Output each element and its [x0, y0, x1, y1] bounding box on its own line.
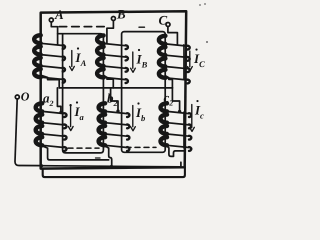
svg-text:a2: a2: [43, 90, 54, 108]
svg-text:IC: IC: [193, 51, 205, 69]
current arrow I_C: [188, 51, 193, 71]
right vertical of winding C: [183, 45, 185, 80]
wire entry winding c: [172, 88, 179, 112]
wire winding B bottom exit: [104, 75, 114, 88]
core window 1 (left): [58, 34, 104, 153]
current arrow I_B: [131, 52, 136, 72]
node winding a entry: [59, 111, 62, 114]
lower bus O-neutral: [41, 162, 181, 167]
svg-text:Ib: Ib: [135, 105, 145, 123]
dashed link A-B: [59, 26, 104, 28]
dash remnant below window 1: [96, 157, 101, 159]
right vertical of winding c: [183, 112, 185, 148]
node winding c entry: [178, 110, 181, 113]
terminal C: [166, 23, 170, 27]
wire C terminal to winding: [168, 27, 178, 45]
wire winding A bottom exit: [41, 75, 60, 88]
outer core/tank rectangle: [41, 11, 187, 168]
wire A terminal to winding: [51, 22, 57, 44]
svg-text:IA: IA: [75, 50, 87, 68]
current arrow I_b: [131, 106, 136, 131]
winding C (upper right leg): [159, 36, 190, 84]
dashed yoke line inside window 1 bottom: [68, 147, 99, 149]
svg-text:IB: IB: [136, 52, 148, 70]
wire B terminal to winding: [107, 21, 114, 44]
wire winding C bottom exit: [165, 76, 172, 88]
svg-text:B: B: [116, 7, 126, 22]
scan specks: [199, 3, 208, 43]
winding B (upper middle leg): [97, 35, 128, 83]
wire O down and right to bottom bus: [15, 99, 41, 166]
wire winding b bottom exit: [105, 146, 112, 167]
terminal B: [111, 17, 115, 21]
wire winding c bottom exit steps: [167, 146, 185, 157]
svg-text:Ia: Ia: [73, 104, 84, 122]
dashed yoke line inside window 2 bottom: [126, 146, 156, 148]
current arrow I_c: [190, 105, 195, 132]
dash remnant B-C: [139, 26, 145, 28]
wire entry winding b: [111, 88, 118, 111]
winding b (lower middle leg): [99, 103, 130, 151]
wire winding a bottom exit to bus: [42, 146, 109, 160]
svg-text:A: A: [54, 7, 64, 22]
svg-text:O: O: [21, 89, 30, 103]
winding c (lower right leg): [161, 103, 192, 151]
current arrow I_A: [70, 51, 75, 71]
node at lower bus: [110, 165, 113, 168]
winding A (upper left leg): [34, 35, 65, 83]
wire entry winding a: [57, 88, 61, 112]
terminal A: [49, 18, 53, 22]
core window 2 (right): [122, 32, 166, 153]
terminal O: [15, 95, 19, 99]
node at O junction: [40, 164, 43, 167]
svg-text:b2: b2: [107, 91, 118, 109]
node winding b entry: [116, 110, 119, 113]
current arrow I_a: [68, 105, 73, 131]
bottom-most return wire: [43, 167, 185, 177]
horizontal bus across windows: [59, 87, 172, 89]
svg-text:Ic: Ic: [194, 103, 204, 121]
winding a (lower left leg): [36, 103, 67, 151]
svg-text:C: C: [159, 13, 168, 28]
